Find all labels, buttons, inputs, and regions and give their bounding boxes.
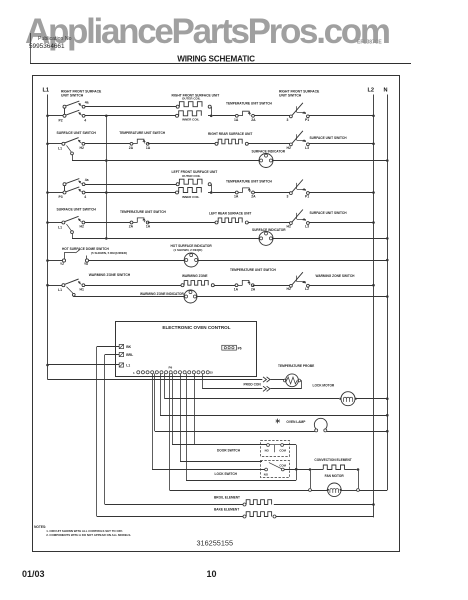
- svg-text:L1: L1: [58, 147, 62, 151]
- svg-text:H2: H2: [287, 225, 291, 229]
- wire row7 to N: [197, 295, 389, 298]
- wire row1 upper branch: [85, 106, 176, 108]
- wire row3 upper branch: [85, 184, 176, 186]
- wire EOC to PROD CON lower: [202, 374, 262, 389]
- node convection left: [309, 468, 312, 471]
- watermark AppliancePartsPros.com: [25, 12, 465, 52]
- svg-text:(5 SHOWN, 5 REQUIRED): (5 SHOWN, 5 REQUIRED): [91, 251, 127, 255]
- svg-text:NO: NO: [264, 472, 269, 476]
- wire row2 L1 feed: [46, 143, 62, 146]
- svg-text:4a: 4a: [85, 100, 89, 104]
- resistor warming zone element: [181, 274, 214, 287]
- svg-text:SURFACE UNIT SWITCH: SURFACE UNIT SWITCH: [57, 131, 97, 135]
- switch surface unit switch row4: [57, 208, 97, 234]
- terminal strip P9: [133, 366, 213, 375]
- svg-text:WARMING ZONE SWITCH: WARMING ZONE SWITCH: [316, 274, 356, 278]
- pin BRL: [119, 352, 133, 357]
- svg-text:INNER COIL: INNER COIL: [182, 118, 200, 122]
- svg-text:2A: 2A: [251, 118, 256, 122]
- wire row2 c: [248, 143, 289, 145]
- svg-text:TEMPERATURE UNIT SWITCH: TEMPERATURE UNIT SWITCH: [120, 210, 167, 214]
- resistor left rear surface unit: [209, 211, 251, 224]
- switch hot surface dome switch: [46, 247, 127, 266]
- svg-text:CONVECTION ELEMENT: CONVECTION ELEMENT: [314, 458, 351, 462]
- svg-text:FAN MOTOR: FAN MOTOR: [325, 474, 345, 478]
- wire row4 indicator stub: [72, 234, 105, 239]
- svg-text:RIGHT FRONT SURFACE UNIT: RIGHT FRONT SURFACE UNIT: [172, 94, 220, 98]
- switch left front surface unit switch (right pole): [287, 180, 310, 199]
- wire oven lamp to N: [327, 430, 389, 433]
- wire row2 indicator feed: [108, 160, 259, 162]
- wire row6 c: [253, 285, 290, 287]
- wire row3 lower branch: [85, 191, 211, 194]
- svg-text:H2: H2: [287, 287, 291, 291]
- wire bake to L2 column: [276, 516, 374, 519]
- wire row1 mid: [213, 115, 236, 117]
- wire column x106: [106, 116, 108, 239]
- svg-text:L3: L3: [305, 225, 309, 229]
- svg-text:3: 3: [287, 118, 289, 122]
- svg-text:Y2: Y2: [60, 262, 64, 266]
- resistor left front surface unit inner coil: [176, 188, 202, 200]
- thermostat temperature unit switch row4: [120, 210, 167, 229]
- lamp surface indicator row4: [252, 228, 286, 245]
- svg-text:2A: 2A: [251, 287, 256, 291]
- resistor right front surface unit outer coil: [172, 94, 220, 109]
- wire EOC to fan: [170, 374, 309, 491]
- resistor left front surface unit outer coil: [172, 170, 218, 186]
- svg-text:316255155: 316255155: [197, 539, 234, 548]
- svg-text:1A: 1A: [146, 225, 151, 229]
- svg-text:TEMPERATURE UNIT SWITCH: TEMPERATURE UNIT SWITCH: [226, 102, 273, 106]
- wire row2 a: [85, 143, 130, 145]
- thermostat temperature unit switch row3: [226, 180, 273, 199]
- svg-text:H2: H2: [287, 146, 291, 150]
- thermostat temperature unit switch row2: [119, 131, 166, 150]
- svg-text:L1: L1: [126, 364, 130, 368]
- switch right front surface unit switch (right pole): [279, 89, 320, 122]
- wire row3 L1 feed: [46, 191, 63, 194]
- svg-text:N: N: [384, 88, 388, 94]
- wire row6 b: [214, 285, 235, 287]
- svg-text:Y8: Y8: [84, 262, 88, 266]
- svg-text:1A: 1A: [234, 287, 239, 291]
- node L2 label: [368, 88, 375, 94]
- node N label: [384, 88, 388, 94]
- svg-text:ELECTRONIC OVEN CONTROL: ELECTRONIC OVEN CONTROL: [162, 325, 230, 330]
- wire EOC to lock switch: [152, 374, 265, 470]
- connector fan right: [357, 489, 360, 492]
- svg-text:COM: COM: [279, 449, 286, 453]
- wire row4 L1 feed: [46, 221, 62, 224]
- thermostat temperature unit switch row6: [230, 268, 277, 291]
- wire row1 lower branch: [85, 115, 211, 118]
- wire bake feed: [97, 516, 243, 518]
- connector fan left: [309, 489, 312, 492]
- pin L1: [119, 363, 130, 368]
- svg-text:P1: P1: [305, 195, 309, 199]
- wire row4 indicator feed: [108, 238, 259, 240]
- node L1 label: [43, 88, 50, 94]
- wire row4 a: [85, 222, 130, 224]
- svg-text:H2: H2: [80, 225, 84, 229]
- resistor bake element: [214, 508, 276, 518]
- lamp warming zone indicator: [140, 290, 197, 303]
- svg-text:2A: 2A: [129, 146, 134, 150]
- wire row6 to L2: [309, 284, 375, 287]
- wire broil to L2: [274, 503, 375, 506]
- resistor right front surface unit inner coil: [176, 111, 202, 122]
- wire row4 indicator to N: [273, 237, 389, 240]
- lamp hot surface indicator: [171, 244, 213, 267]
- wire row7 stub: [74, 295, 185, 298]
- switch warming zone switch right: [287, 272, 356, 291]
- wire lock motor to N: [356, 397, 389, 400]
- svg-text:DOOR SWITCH: DOOR SWITCH: [217, 448, 241, 452]
- svg-text:OVEN LAMP: OVEN LAMP: [286, 420, 306, 424]
- svg-text:INNER COIL: INNER COIL: [182, 195, 200, 199]
- wire row3 to L2: [309, 191, 375, 194]
- publication header: [29, 33, 382, 64]
- wire row1 to L2: [309, 115, 375, 118]
- svg-text:4: 4: [84, 118, 86, 122]
- svg-text:UNIT SWITCH: UNIT SWITCH: [61, 93, 84, 97]
- svg-text:OUTER COIL: OUTER COIL: [182, 174, 201, 178]
- switch surface unit switch row2 right: [287, 131, 348, 150]
- wire conv left drop: [310, 471, 312, 489]
- svg-text:P1: P1: [305, 118, 309, 122]
- svg-text:NO: NO: [265, 449, 270, 453]
- wire L1 pin: [46, 364, 119, 367]
- wire EOC to lock motor: [165, 374, 340, 400]
- footer page 10: [207, 569, 217, 579]
- wire row2 indicator to N: [273, 159, 389, 162]
- wire EOC to door switch: [172, 374, 267, 446]
- svg-text:1A: 1A: [234, 118, 239, 122]
- svg-text:P2: P2: [59, 118, 63, 122]
- wire row3 to right switch: [254, 192, 289, 194]
- svg-text:SURFACE UNIT SWITCH: SURFACE UNIT SWITCH: [310, 136, 348, 140]
- wire conv right drop: [358, 471, 360, 489]
- wire row2 b: [148, 143, 215, 145]
- svg-text:P3: P3: [59, 195, 63, 199]
- svg-text:1A: 1A: [146, 146, 151, 150]
- wire row6 L1 feed: [46, 284, 62, 287]
- svg-text:L3: L3: [305, 146, 309, 150]
- wire row1 L1 feed: [46, 115, 63, 118]
- svg-text:5995364661: 5995364661: [29, 43, 65, 50]
- svg-text:BROIL ELEMENT: BROIL ELEMENT: [214, 495, 240, 499]
- svg-text:PROD CON: PROD CON: [244, 383, 262, 387]
- footer date 01/03: [22, 569, 45, 579]
- junction row4-ind: [105, 237, 108, 240]
- wire row4 to L2: [309, 221, 375, 224]
- svg-text:SURFACE UNIT SWITCH: SURFACE UNIT SWITCH: [57, 208, 97, 212]
- wire EOC to oven lamp: [155, 374, 315, 432]
- svg-text:L2: L2: [368, 88, 375, 94]
- svg-text:WARMING ZONE: WARMING ZONE: [182, 274, 208, 278]
- wire BRL to broil: [105, 355, 120, 505]
- wire row2 indicator stub: [72, 155, 105, 161]
- svg-text:L1: L1: [58, 288, 62, 292]
- wire EOC to lock top: [180, 374, 262, 462]
- svg-text:Publication No: Publication No: [38, 36, 72, 42]
- svg-text:WARMING ZONE SWITCH: WARMING ZONE SWITCH: [89, 273, 131, 277]
- label PROD CON: [244, 383, 262, 387]
- title WIRING SCHEMATIC: [30, 55, 411, 64]
- notes block: [34, 525, 131, 537]
- switch door switch: [217, 441, 290, 457]
- switch lock switch: [215, 461, 290, 478]
- node convection right: [357, 468, 360, 471]
- svg-text:SURFACE INDICATOR: SURFACE INDICATOR: [252, 228, 286, 232]
- wire row3 mid: [213, 192, 236, 194]
- svg-text:WARMING ZONE INDICATOR: WARMING ZONE INDICATOR: [140, 292, 184, 296]
- switch surface unit switch row2: [57, 131, 97, 155]
- svg-text:L2: L2: [305, 287, 309, 291]
- svg-text:L1: L1: [58, 225, 62, 229]
- connector PROD CON arrow upper: [263, 377, 284, 382]
- svg-text:TEMPERATURE PROBE: TEMPERATURE PROBE: [278, 364, 314, 368]
- resistor right rear surface unit: [208, 132, 252, 145]
- wire row2 to L2: [309, 143, 375, 146]
- svg-text:LEFT REAR SURFACE UNIT: LEFT REAR SURFACE UNIT: [209, 211, 251, 215]
- svg-text:4: 4: [84, 195, 86, 199]
- wire fan to N: [359, 490, 387, 492]
- resistor convection element: [311, 458, 356, 470]
- thermostat temperature unit switch row1: [226, 102, 273, 122]
- connector PROD CON arrow lower: [263, 386, 302, 391]
- wire row4 c: [248, 222, 289, 224]
- thermistor temperature probe: [278, 364, 314, 387]
- switch warming zone switch: [58, 273, 131, 296]
- svg-text:(1 SHOWN, 2 REQD): (1 SHOWN, 2 REQD): [174, 248, 203, 252]
- svg-text:EFL387CE: EFL387CE: [357, 40, 382, 46]
- motor lock motor: [313, 384, 357, 406]
- wire row1 to right switch: [254, 115, 289, 117]
- lamp surface indicator row2: [252, 150, 286, 168]
- EOC box electronic oven control: [116, 322, 257, 377]
- svg-text:10: 10: [207, 569, 217, 579]
- part number 316255155: [197, 539, 234, 548]
- svg-text:4a: 4a: [85, 178, 89, 182]
- wire row5 a: [89, 260, 185, 262]
- motor fan motor: [311, 474, 356, 496]
- wire door COM return: [186, 374, 298, 481]
- svg-text:H2: H2: [80, 146, 84, 150]
- wire L1 vertical rail: [47, 95, 49, 380]
- svg-text:LOCK SWITCH: LOCK SWITCH: [215, 472, 238, 476]
- svg-text:1A: 1A: [234, 195, 239, 199]
- switch left front surface unit switch (DPST): [59, 178, 89, 199]
- svg-text:TEMPERATURE UNIT SWITCH: TEMPERATURE UNIT SWITCH: [226, 180, 273, 184]
- svg-text:H1: H1: [80, 287, 84, 291]
- wire EOC to N mid: [160, 374, 389, 417]
- wire row4 b: [148, 222, 215, 224]
- svg-text:BK: BK: [126, 345, 131, 349]
- svg-text:P6: P6: [238, 346, 242, 350]
- resistor broil element: [214, 495, 272, 506]
- lamp oven lamp: [276, 418, 327, 432]
- wire broil feed: [105, 504, 243, 506]
- wire row1 upper-to-lower join: [210, 107, 213, 117]
- svg-text:2A: 2A: [129, 225, 134, 229]
- wire row6 a: [85, 285, 181, 287]
- svg-text:COM: COM: [279, 463, 286, 467]
- wire L1 lower elbow: [48, 379, 263, 381]
- wire lock switch out: [284, 469, 309, 471]
- wire probe right leg: [300, 381, 303, 389]
- switch surface unit switch row4 right: [287, 210, 348, 229]
- svg-text:NOTES:: NOTES:: [34, 525, 46, 529]
- wire BK to bake: [97, 347, 120, 517]
- svg-text:BRL: BRL: [126, 353, 133, 357]
- svg-text:15: 15: [210, 370, 214, 374]
- svg-text:SURFACE INDICATOR: SURFACE INDICATOR: [252, 150, 286, 154]
- wire N vertical rail: [387, 95, 389, 491]
- svg-text:RIGHT REAR SURFACE UNIT: RIGHT REAR SURFACE UNIT: [208, 132, 252, 136]
- svg-text:TEMPERATURE UNIT SWITCH: TEMPERATURE UNIT SWITCH: [230, 268, 277, 272]
- junction row2-ind: [105, 159, 108, 162]
- svg-text:WIRING SCHEMATIC: WIRING SCHEMATIC: [177, 55, 255, 64]
- svg-text:SURFACE UNIT SWITCH: SURFACE UNIT SWITCH: [310, 211, 348, 215]
- wire row3 join: [210, 184, 213, 194]
- svg-text:BAKE ELEMENT: BAKE ELEMENT: [214, 508, 239, 512]
- switch right front surface unit switch (DPST): [59, 89, 103, 122]
- connector P6 inside EOC: [222, 345, 242, 350]
- wire row5 to N: [198, 259, 388, 262]
- svg-text:LOCK MOTOR: LOCK MOTOR: [313, 384, 335, 388]
- svg-text:01/03: 01/03: [22, 569, 45, 579]
- svg-text:3: 3: [287, 195, 289, 199]
- pin BK: [119, 344, 131, 349]
- svg-text:UNIT SWITCH: UNIT SWITCH: [279, 93, 302, 97]
- svg-text:2. COMPONENTS WITH A DO NOT A: 2. COMPONENTS WITH A DO NOT APPEAR ON AL…: [46, 533, 131, 537]
- svg-text:1: 1: [133, 371, 135, 375]
- svg-text:L1: L1: [43, 88, 50, 94]
- wire L2 vertical rail: [373, 95, 375, 518]
- svg-text:P9: P9: [169, 366, 173, 370]
- svg-text:TEMPERATURE UNIT SWITCH: TEMPERATURE UNIT SWITCH: [119, 131, 166, 135]
- svg-text:2A: 2A: [251, 195, 256, 199]
